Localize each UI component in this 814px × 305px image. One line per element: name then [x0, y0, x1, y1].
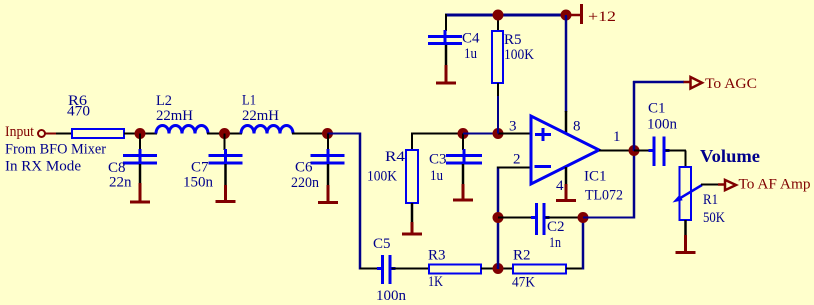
svg-text:L2: L2 — [156, 93, 172, 109]
wire pin3 horizontal — [498, 133, 531, 135]
wire pin8 vertical — [565, 15, 568, 112]
svg-text:C2: C2 — [547, 219, 565, 235]
op-amp minus symbol — [535, 165, 552, 168]
svg-text:47K: 47K — [512, 275, 535, 291]
capacitor C2 plates — [531, 203, 550, 235]
wire input terminal red stub — [45, 133, 58, 135]
svg-text:R5: R5 — [504, 32, 522, 48]
input terminal circle — [38, 130, 45, 137]
svg-text:8: 8 — [573, 119, 581, 135]
svg-text:1u: 1u — [464, 46, 477, 62]
capacitor C5 plates — [377, 255, 396, 284]
svg-text:3: 3 — [509, 119, 517, 135]
svg-text:1u: 1u — [430, 168, 443, 184]
svg-text:C1: C1 — [648, 101, 666, 117]
resistor R2 body — [513, 265, 566, 274]
junction rail / pin8 — [561, 10, 572, 21]
junction rail / R5 — [493, 10, 504, 21]
svg-text:R1: R1 — [703, 192, 718, 208]
svg-text:C6: C6 — [295, 160, 313, 176]
potentiometer R1 wiper arrow — [673, 185, 703, 203]
+12 supply connection — [567, 4, 582, 24]
wire AGC red stub — [684, 81, 692, 84]
wire output up to AGC — [633, 81, 636, 151]
svg-text:L1: L1 — [242, 93, 256, 109]
wire C2 right plate to node — [546, 217, 584, 219]
wire node to C6 top — [327, 134, 329, 151]
wire AF red stub — [718, 183, 725, 186]
potentiometer R1 body — [680, 167, 692, 220]
ground below C6 — [318, 164, 338, 203]
junction node C3 tap — [458, 128, 469, 139]
svg-text:2: 2 — [513, 152, 521, 168]
svg-text:To AGC: To AGC — [705, 76, 757, 92]
svg-text:R3: R3 — [428, 248, 446, 264]
junction node after L1 (C6) — [322, 128, 333, 139]
svg-text:4: 4 — [556, 178, 564, 194]
wire R3 to R2 through node — [481, 268, 513, 270]
wire node to C8 top — [139, 134, 141, 151]
wire C5 to R3 — [392, 268, 430, 270]
svg-text:C4: C4 — [462, 31, 480, 47]
svg-text:100n: 100n — [376, 288, 407, 304]
svg-text:IC1: IC1 — [584, 169, 607, 185]
resistor R6 body — [72, 129, 124, 138]
capacitor C4 plates — [428, 30, 462, 44]
wire down to pot top — [685, 151, 687, 168]
wire wiper to AF Amp — [701, 184, 719, 186]
resistor R3 body — [429, 265, 481, 274]
junction node pin3 — [493, 128, 504, 139]
capacitor C3 plates — [446, 149, 482, 163]
wire feedback riser to output — [633, 151, 636, 219]
ground below R4 — [402, 203, 422, 234]
ground pin 4 — [556, 167, 576, 201]
capacitor C6 plates — [311, 149, 345, 163]
wire pin1 output — [599, 150, 634, 152]
svg-text:In RX Mode: In RX Mode — [5, 159, 81, 175]
junction node R6/C8 — [135, 128, 146, 139]
op-amp plus symbol — [535, 128, 551, 141]
svg-text:220n: 220n — [291, 175, 319, 191]
inductor L2 — [156, 126, 208, 134]
wire R2 to riser corner — [566, 268, 584, 270]
ground below C7 — [216, 164, 236, 202]
svg-text:22n: 22n — [109, 175, 132, 191]
wire down to C5 row — [359, 133, 362, 270]
svg-text:1: 1 — [613, 129, 621, 145]
svg-text:TL072: TL072 — [585, 188, 623, 204]
wire L2 to L1 — [207, 133, 242, 135]
wire R4 top riser — [411, 133, 413, 151]
svg-text:1n: 1n — [549, 235, 561, 251]
svg-text:C3: C3 — [429, 152, 447, 168]
wire AGC horizontal — [633, 81, 684, 84]
junction node C2 left — [493, 212, 504, 223]
ground below C4 — [436, 45, 456, 83]
wire to R6 — [56, 133, 72, 135]
ground below R1 — [676, 220, 696, 253]
op-amp IC1 triangle — [531, 116, 599, 184]
ground below C8 — [130, 164, 150, 202]
svg-text:R4: R4 — [385, 149, 406, 165]
wire C3 node to pin3 node — [463, 133, 499, 135]
resistor R5 body — [492, 31, 503, 83]
svg-text:Input: Input — [5, 124, 35, 140]
svg-text:100K: 100K — [504, 47, 534, 63]
svg-text:470: 470 — [67, 104, 90, 120]
capacitor C8 plates — [123, 149, 157, 163]
capacitor C1 plates — [649, 137, 670, 167]
wire R5 bottom lead navy — [497, 96, 499, 134]
arrow To AGC — [691, 77, 703, 89]
wire feedback horizontal — [583, 217, 635, 219]
svg-text:R2: R2 — [513, 248, 531, 264]
svg-text:100n: 100n — [647, 117, 678, 133]
wire node to C7 top — [224, 134, 226, 151]
junction output node — [629, 145, 640, 156]
junction node C2 right / feedback — [578, 212, 589, 223]
wire C1 to pot corner — [666, 150, 687, 152]
wire node to C2 left plate — [498, 217, 536, 219]
wire riser R2 up to C2 node — [582, 218, 585, 270]
wire R6 to L2 — [124, 133, 157, 135]
svg-text:Volume: Volume — [700, 146, 760, 166]
svg-text:C5: C5 — [373, 236, 391, 252]
svg-text:To AF Amp: To AF Amp — [739, 177, 811, 193]
svg-text:+12: +12 — [588, 9, 616, 25]
wire pin2 horizontal — [497, 167, 531, 169]
wire C6 node to corner — [328, 133, 362, 135]
wire R5 bottom lead black — [497, 83, 499, 97]
wire +12 rail — [445, 14, 567, 17]
resistor R4 body — [406, 150, 418, 203]
wire pin8 black stub — [565, 111, 568, 133]
wire inverting net vertical — [497, 167, 500, 270]
inductor L1 — [241, 126, 293, 134]
wire rail to R5 top — [497, 16, 499, 32]
wire rail to C4 top — [445, 14, 447, 31]
capacitor C7 plates — [209, 149, 243, 163]
svg-text:From BFO Mixer: From BFO Mixer — [5, 142, 106, 158]
junction node R3/R2 (inverting input net) — [493, 263, 504, 274]
arrow To AF Amp — [725, 180, 736, 190]
svg-text:22mH: 22mH — [156, 108, 193, 124]
wire R4 to C3 node — [411, 133, 463, 135]
svg-text:50K: 50K — [703, 210, 725, 226]
ground below C3 — [453, 164, 473, 200]
junction node L2/L1 (C7) — [219, 128, 230, 139]
wire L1 to C6 node — [292, 133, 328, 135]
wire node to C3 top — [462, 134, 464, 151]
wire output to C1 — [634, 150, 652, 152]
svg-text:100K: 100K — [367, 169, 397, 185]
svg-text:1K: 1K — [428, 274, 443, 290]
svg-text:22mH: 22mH — [242, 108, 279, 124]
wire corner to C5 left — [360, 268, 381, 270]
svg-text:C7: C7 — [191, 160, 209, 176]
svg-text:150n: 150n — [183, 175, 214, 191]
